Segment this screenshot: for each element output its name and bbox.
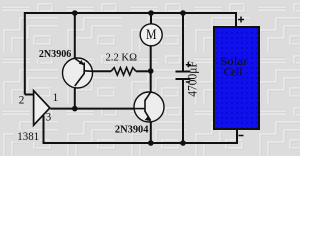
svg-text:2: 2 [19, 94, 25, 106]
svg-text:1: 1 [53, 92, 59, 104]
svg-text:2N3906: 2N3906 [39, 49, 71, 60]
svg-text:1381: 1381 [17, 129, 39, 143]
svg-text:2N3904: 2N3904 [115, 124, 149, 136]
svg-text:2.2 KΩ: 2.2 KΩ [106, 52, 138, 63]
svg-text:Cell: Cell [224, 67, 243, 79]
svg-text:M: M [146, 27, 157, 43]
svg-text:4700μF: 4700μF [185, 61, 200, 97]
svg-text:3: 3 [46, 112, 52, 124]
